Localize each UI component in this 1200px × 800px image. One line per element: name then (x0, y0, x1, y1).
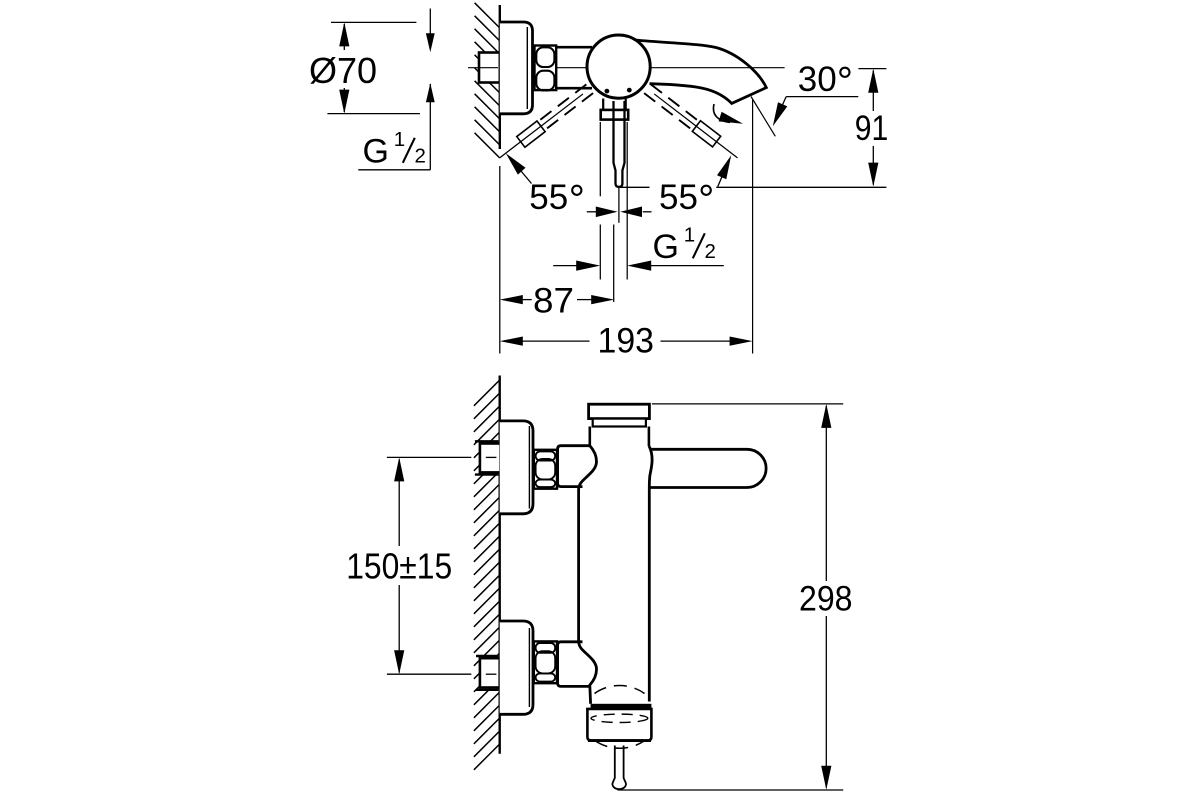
label 55° right (659, 178, 711, 217)
upper escutcheon flange (side view) (500, 421, 533, 514)
escutcheon flange (top view) (500, 22, 533, 114)
angle arrow left 55° (506, 153, 532, 183)
spout flow arc arrow (713, 104, 743, 124)
centerline (faucet axis, top view) (468, 67, 785, 69)
inlet pipe G1/2 behind wall (top view) (479, 53, 500, 83)
label 55° left (529, 178, 581, 217)
dimension G1/2 lower (outlet thread) (553, 223, 724, 270)
dimension 87 (500, 281, 614, 320)
horizontal reference line at handle tip level (619, 186, 886, 188)
svg-text:G: G (363, 133, 389, 171)
svg-text:55: 55 (659, 178, 698, 217)
svg-text:1: 1 (684, 223, 695, 246)
svg-text:55: 55 (529, 178, 568, 217)
upper union nut (side view) (534, 450, 557, 489)
dimension 91 (855, 69, 889, 187)
screw dots on cartridge (605, 88, 632, 94)
cartridge circle (top view) (587, 35, 650, 98)
lever handle pointing down (top view) (601, 99, 629, 187)
upper inlet dome (side view) (558, 446, 597, 641)
faucet body right edge (side view) (649, 446, 652, 702)
wall (top view) hatched line (475, 3, 500, 354)
hidden ball joint (dashed, side view) (591, 685, 648, 748)
dimension G1/2 upper label with leader (358, 9, 434, 171)
dimension 193 (500, 322, 753, 361)
wall (side view) hatched band (474, 376, 500, 770)
svg-text:150±15: 150±15 (346, 545, 452, 586)
svg-text:1: 1 (394, 128, 405, 151)
lower inlet dome (side view) (558, 641, 597, 704)
aerator housing (side view) (587, 709, 651, 741)
lower inlet pipe behind wall (side view) (476, 656, 500, 690)
water stream from outlet (side view) (612, 746, 626, 790)
union nut (top view) (535, 46, 557, 91)
spout outlet joint band (side view) (591, 704, 652, 709)
dimension 150±15 (346, 457, 496, 674)
swung handle position right 55° (dashed) with angle ray (644, 83, 742, 163)
lever handle (side view) (651, 449, 767, 487)
angle arrow right 55° (717, 155, 731, 186)
spout (top view) (633, 40, 766, 104)
dimension 30° leader (773, 60, 859, 126)
dimension 298 (618, 404, 853, 790)
svg-text:87: 87 (533, 281, 574, 320)
svg-text:2: 2 (415, 145, 426, 168)
spout tip angle lines (30° reference) (751, 97, 775, 354)
svg-text:30: 30 (798, 60, 837, 99)
svg-text:298: 298 (799, 580, 853, 619)
handle thickness meeting arrows (587, 207, 652, 218)
body tube between nut and cartridge (top view) (556, 47, 592, 88)
lower union nut (side view) (534, 641, 557, 683)
swung handle position left 55° (dashed) with angle ray (496, 84, 594, 164)
svg-text:Ø70: Ø70 (309, 50, 377, 91)
svg-text:G: G (653, 228, 679, 266)
svg-text:2: 2 (705, 240, 716, 263)
svg-text:91: 91 (855, 109, 889, 148)
dimension Ø70 (309, 22, 420, 113)
lower escutcheon flange (side view) (500, 621, 533, 714)
svg-text:193: 193 (598, 322, 655, 361)
handle width extension lines (600, 122, 627, 302)
upper inlet pipe behind wall (side view) (475, 441, 501, 474)
faucet body cap (side view) (589, 404, 650, 426)
faucet body neck (side view) (590, 427, 649, 447)
